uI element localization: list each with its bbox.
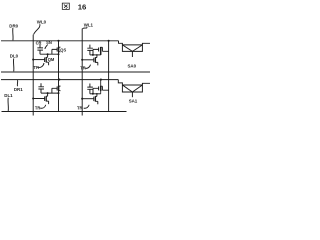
node junction WL1-QM4 gate <box>81 98 83 100</box>
label QS <box>60 47 66 52</box>
node SN wire cell3 <box>41 92 59 94</box>
label DR0 <box>9 23 18 28</box>
svg-text:SN: SN <box>46 40 52 45</box>
transistor QM cell2 <box>82 59 94 61</box>
transistor QS cell4 <box>100 80 102 94</box>
op-amp SA1 sense amplifier <box>122 85 142 92</box>
node junction SN4-QM4 <box>96 93 98 95</box>
transistor QM cell4 <box>82 98 94 100</box>
svg-text:WL1: WL1 <box>84 22 94 27</box>
wire L1 DR0 bus <box>1 40 119 42</box>
wire TR4 arrow <box>84 105 89 108</box>
wire L3 DR1 bus <box>1 79 118 81</box>
node SN wire cell1 <box>40 53 59 55</box>
node junction L3 col1 <box>58 79 60 81</box>
node WL1 vertical word line <box>81 29 83 116</box>
node SN wire cell4 <box>90 93 101 95</box>
node junction SN1-col1 <box>58 53 60 55</box>
svg-text:WL0: WL0 <box>37 19 47 24</box>
wire TR3 arrow <box>40 105 46 108</box>
label SA1 <box>129 98 138 103</box>
svg-text:QM: QM <box>48 57 55 62</box>
wire DL1 leader <box>7 98 9 111</box>
node junction L3 col2 cell <box>100 79 102 81</box>
label SN <box>46 40 52 45</box>
node junction SN3-col1 <box>58 92 60 94</box>
node junction WL0-QM1 gate <box>32 59 34 61</box>
svg-text:TR: TR <box>35 105 41 110</box>
svg-text:SA0: SA0 <box>128 63 137 68</box>
capacitor cell2 <box>87 45 93 55</box>
wire TR2 arrow <box>85 65 90 69</box>
svg-text:DL1: DL1 <box>4 93 13 98</box>
node junction SN1-QM1 <box>47 53 49 55</box>
title glyph 图 <box>62 3 69 9</box>
wire TR1 arrow <box>38 63 44 67</box>
svg-text:DR1: DR1 <box>14 87 23 92</box>
wire WL1 leader <box>83 27 87 29</box>
svg-text:16: 16 <box>78 2 87 11</box>
svg-text:SA1: SA1 <box>129 98 138 103</box>
wire SA0 left lead <box>119 41 123 45</box>
transistor QS cell1 <box>58 47 60 52</box>
label QM <box>48 57 55 62</box>
node junction L1 col1 <box>57 40 59 42</box>
wire SA0 output <box>131 51 133 57</box>
node WL0 vertical word line <box>32 35 34 116</box>
wire DR1 leader <box>16 80 18 86</box>
wire DR0 leader <box>12 28 14 40</box>
label DL1 <box>4 93 13 98</box>
capacitor CR cell1 <box>37 44 43 54</box>
wire L4 DL1 bus <box>2 111 127 113</box>
svg-text:TR: TR <box>77 105 83 110</box>
wire column1 vertical <box>58 41 60 112</box>
node junction SN4 gate <box>92 93 94 95</box>
transistor QM cell3 <box>33 98 44 100</box>
label TR cell1 <box>34 65 40 70</box>
wire SA0 right lead <box>142 43 150 45</box>
node junction WL1-QM2 gate <box>81 59 83 61</box>
label WL1 <box>84 22 94 27</box>
wire DL0 leader <box>12 58 14 71</box>
svg-text:CR: CR <box>36 40 42 45</box>
wire SA1 right lead <box>142 83 150 85</box>
capacitor cell4 <box>87 84 93 94</box>
node SN wire cell2 <box>90 54 101 56</box>
node junction L1 col2 <box>108 40 110 42</box>
label TR cell2 <box>80 66 86 71</box>
svg-text:DR0: DR0 <box>9 23 18 28</box>
svg-text:QS: QS <box>60 47 66 52</box>
wire SN leader <box>45 45 48 49</box>
label DL0 <box>10 54 19 59</box>
transistor QS cell2 <box>100 47 102 55</box>
label WL0 <box>37 19 47 24</box>
label TR cell3 <box>35 105 41 110</box>
svg-text:DL0: DL0 <box>10 54 19 59</box>
wire L2 DL0 bus <box>1 71 150 73</box>
wire column2 vertical <box>108 41 110 112</box>
title text 16 <box>78 2 87 11</box>
wire SA1 left lead <box>118 80 122 85</box>
wire SA1 output <box>131 92 133 97</box>
label DR1 <box>14 87 23 92</box>
wire WL0 leader <box>34 24 40 34</box>
node junction WL0-QM3 gate <box>32 97 34 99</box>
transistor QS cell3 <box>58 86 60 91</box>
label CR <box>36 40 42 45</box>
label SA0 <box>128 63 137 68</box>
node junction SN2-QM2 <box>96 54 98 56</box>
label TR cell4 <box>77 105 83 110</box>
node junction SN3-QM3 <box>47 92 49 94</box>
op-amp SA0 sense amplifier <box>122 45 142 52</box>
transistor QM cell1 <box>33 59 44 61</box>
capacitor cell3 <box>38 83 44 93</box>
svg-text:TR: TR <box>80 66 86 71</box>
node junction SN2 gate <box>92 54 94 56</box>
